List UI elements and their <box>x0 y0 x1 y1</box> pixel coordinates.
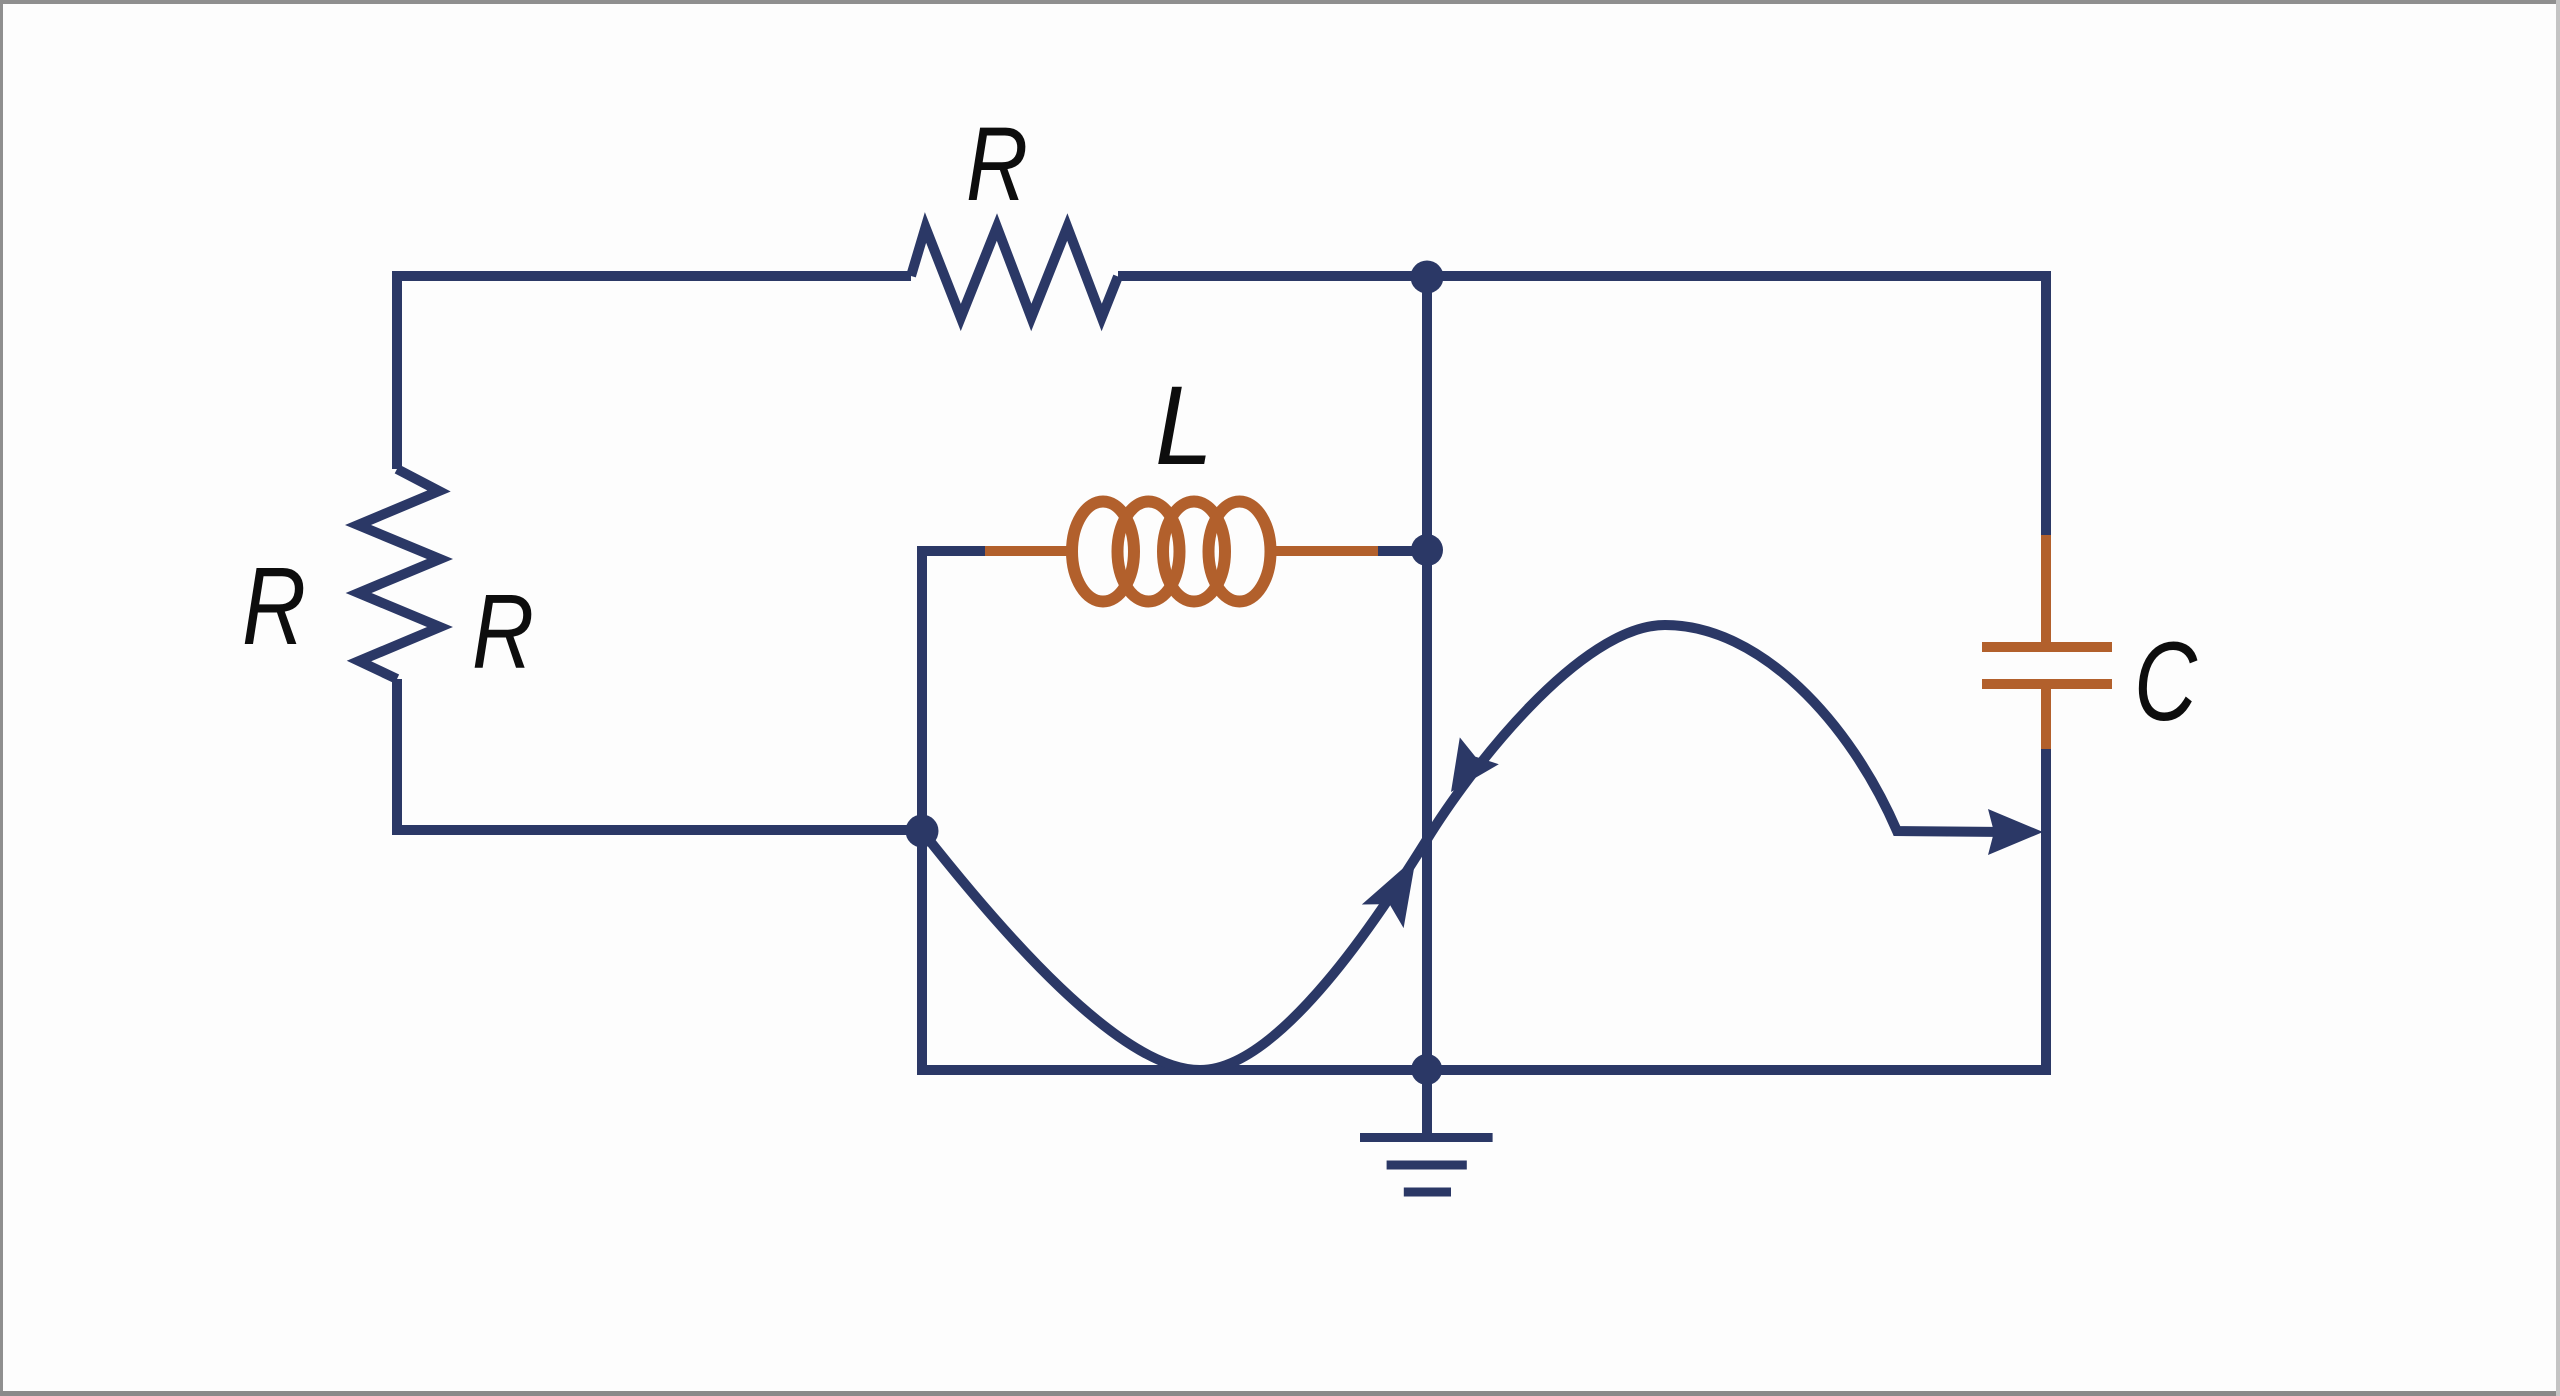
svg-text:R: R <box>242 545 306 668</box>
svg-text:L: L <box>1155 363 1213 488</box>
svg-text:R: R <box>472 573 534 691</box>
svg-text:R: R <box>966 106 1028 223</box>
svg-text:C: C <box>2134 619 2198 744</box>
